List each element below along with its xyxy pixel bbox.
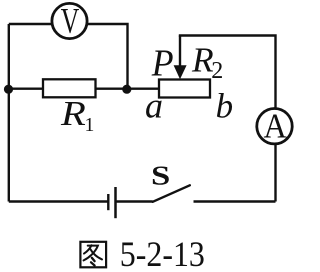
label P: [151, 42, 174, 84]
ammeter U-A circle: [257, 109, 292, 144]
svg-text:R: R: [60, 95, 86, 133]
node: middle junction dot: [122, 85, 131, 94]
wiper arrow P of R2: [174, 36, 187, 80]
wire: top-right from wiper to right rail: [179, 36, 276, 108]
node: left junction dot: [4, 85, 13, 94]
svg-text:A: A: [264, 107, 288, 146]
wire: left rail: [8, 24, 10, 202]
wire: right rail below ammeter: [274, 145, 276, 202]
wire: voltmeter right to mid vertical down to node: [88, 24, 128, 89]
resistor R1: [43, 79, 96, 97]
svg-text:V: V: [61, 1, 80, 41]
wire: battery to switch pivot: [117, 200, 153, 202]
wire: bottom rail left segment to battery: [9, 200, 108, 202]
switch S blade: [153, 185, 190, 202]
caption: figure number 5-2-13: [120, 234, 205, 272]
wire: main horizontal rail through R1 to R2: [9, 87, 159, 89]
svg-text:b: b: [216, 87, 234, 126]
wire: switch contact to right rail: [194, 200, 276, 202]
svg-text:a: a: [145, 85, 163, 125]
battery long positive plate: [114, 187, 117, 218]
voltmeter U-V circle: [52, 3, 87, 38]
svg-text:2: 2: [211, 58, 223, 84]
label R2: [191, 40, 223, 84]
svg-text:P: P: [151, 42, 174, 84]
potentiometer R2 body: [159, 80, 210, 98]
svg-text:S: S: [151, 161, 170, 191]
wire: top-left horizontal to voltmeter: [9, 23, 51, 25]
svg-text:5-2-13: 5-2-13: [120, 234, 205, 272]
battery short negative plate: [107, 194, 109, 210]
svg-text:1: 1: [85, 114, 95, 136]
label R1: [60, 95, 94, 136]
caption: hand-drawn CJK 图 glyph: [80, 242, 106, 267]
